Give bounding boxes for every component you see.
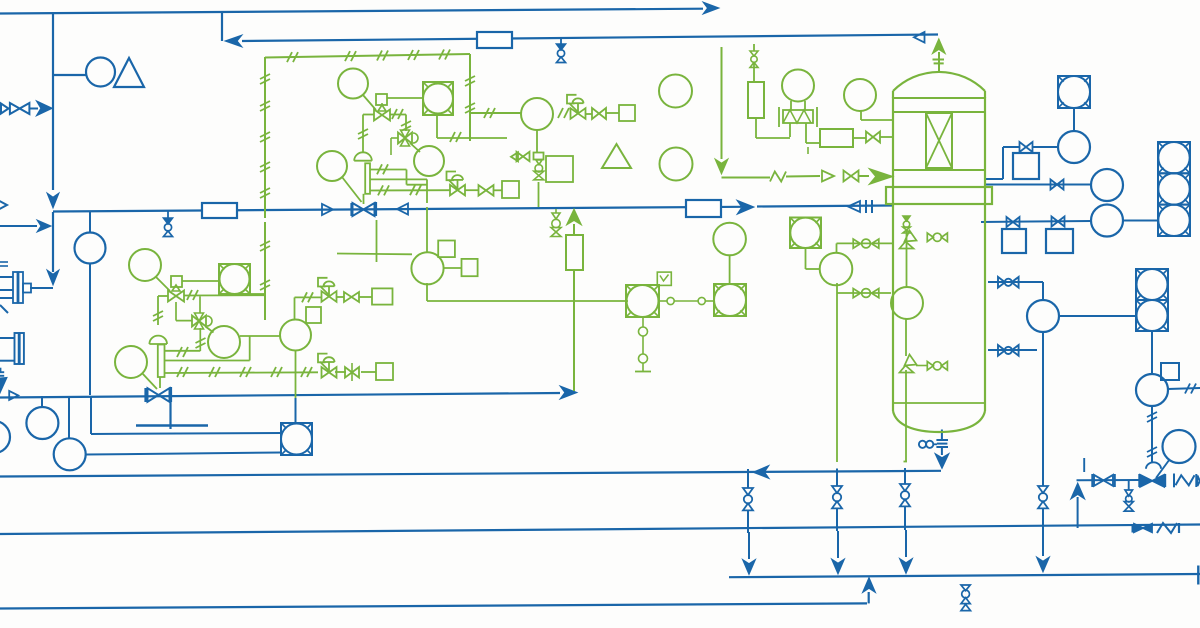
instrument circle PI0 partial (0, 421, 10, 453)
signal link dots (659, 297, 714, 304)
display box green top (423, 82, 453, 115)
hash manifold V1 out (392, 109, 403, 119)
seal pot body (748, 82, 764, 118)
arrow y394 into riser (560, 386, 577, 399)
column drain rupture disc (936, 440, 948, 447)
tick below mixer (807, 147, 809, 154)
wire dp low y352 (165, 350, 201, 352)
valve check y394 (9, 391, 18, 400)
wire capillary to PIC (470, 112, 521, 114)
wire signal y301 (427, 300, 628, 302)
wire PI low diag (142, 373, 157, 389)
wire V2L diag (206, 327, 214, 333)
wire flag to box (387, 97, 423, 99)
display box right top (1058, 76, 1090, 108)
reducer on reflux line near column (914, 32, 925, 43)
pump triangle (114, 58, 144, 87)
column packing (926, 113, 952, 168)
hash capillary top (287, 50, 450, 63)
arrow column vent (932, 39, 945, 54)
wire branch A2 lower (836, 508, 838, 531)
valve branch A1 (743, 488, 753, 510)
wire process line into column (757, 206, 893, 207)
triangle free (602, 144, 631, 168)
square FT flag2 (444, 259, 478, 276)
wire dp out y170 (370, 170, 427, 185)
valve gate process control (352, 202, 377, 216)
hash V1 left (358, 129, 368, 139)
wire seal top stub (753, 44, 755, 51)
wire boxF link (250, 293, 265, 295)
valve tee below PIC (511, 152, 544, 162)
valve vertical on reflux line (557, 37, 566, 63)
wire stack2 down (1151, 331, 1153, 374)
wire stub to PI1 (41, 396, 43, 407)
column liquid level (893, 402, 985, 404)
valve manifold V2L (192, 313, 212, 329)
wire bottom process line y394 (0, 393, 560, 398)
regulator cluster y114 (567, 95, 586, 119)
hash V1L left (153, 311, 163, 321)
pump circle (86, 58, 115, 87)
instrument circle FT (411, 252, 443, 284)
wire V2 diag TI (410, 143, 420, 152)
instrument circle LG (1163, 430, 1196, 463)
wire V2 stub (391, 138, 398, 155)
wire x1043 lower (1042, 508, 1044, 531)
square check flag (657, 272, 671, 285)
column dome (893, 72, 985, 98)
hash V1 V2 (401, 121, 411, 131)
wire capillary right (469, 54, 471, 141)
wire L nozzle (837, 243, 894, 253)
hash dp y189 (378, 185, 421, 195)
wire V2L top stub (199, 296, 201, 313)
wire small inlet y226 (0, 225, 37, 227)
instrument circle dip (891, 287, 923, 319)
instrument rect on reflux line (477, 32, 512, 48)
instrument circle TI low (208, 326, 240, 358)
valve manifold V1 (374, 103, 390, 121)
wire dp low y360 (165, 336, 250, 361)
display box K (790, 218, 821, 249)
arrow process line (737, 200, 754, 214)
regulator cluster y189 (447, 172, 466, 196)
wire TI low link (240, 335, 280, 337)
square y114 (619, 105, 635, 121)
valve set line B right (1133, 523, 1179, 533)
valve check flare (822, 171, 834, 182)
wire riser to rect (573, 224, 575, 235)
column flange (886, 187, 992, 204)
valve below line C (961, 585, 971, 611)
arrow riser up (1071, 483, 1085, 499)
hash LIC signal (1185, 384, 1196, 394)
wire nozzle E y350 (988, 349, 1037, 351)
wire mid2 down (295, 351, 297, 399)
instrument circle PIC (521, 98, 553, 130)
ejector E2 piping (0, 338, 15, 372)
column top nozzle (933, 52, 945, 73)
wire pot to column (880, 136, 893, 138)
square y372 (376, 363, 393, 380)
wire main process line y211 (53, 207, 741, 212)
wire pot down (756, 118, 790, 138)
wire dp out y179 (370, 178, 427, 180)
instrument circle above I (713, 223, 746, 256)
wire valve to sq y114 (606, 112, 619, 114)
end bar line C (1197, 566, 1199, 585)
hash y296 (302, 292, 313, 302)
converter box I (714, 284, 746, 316)
wire LIC signal right (1168, 388, 1200, 389)
wire reg y296 out (336, 296, 344, 298)
valve nozzle B (1051, 180, 1064, 190)
wire header line B (0, 525, 1200, 535)
wire y480 branch (1077, 480, 1140, 490)
arrow green riser tip (567, 209, 582, 225)
wire L down (836, 283, 838, 462)
actuator dome DP top (354, 152, 372, 160)
wire branch to pump symbol (53, 74, 86, 76)
wire flag to box F (182, 280, 219, 282)
arrow B to C x837 (832, 531, 845, 574)
wire V1L right (184, 294, 265, 296)
valve branch A3 (900, 484, 910, 506)
wire mixer right down (806, 123, 820, 143)
wire sensor y296 (295, 297, 322, 319)
wire nozzle A y179 (986, 147, 1020, 179)
valve nozzle E (998, 345, 1019, 356)
arrow on line A (753, 466, 769, 479)
valve nozzle D (998, 277, 1019, 288)
column drain sight glass (919, 441, 937, 448)
valve below y480 (1124, 490, 1133, 511)
converter box H (626, 285, 659, 317)
valve globe below PIC (534, 160, 544, 180)
instrument circle TI mid (414, 146, 444, 176)
instrument circle PSV (782, 70, 814, 102)
hash capillary to PIC (484, 108, 495, 118)
wire dip upper (906, 231, 908, 287)
instrument circle PT top (338, 69, 368, 99)
valve manifold V2 (398, 130, 418, 146)
square y296 (372, 288, 393, 304)
wire ejector suction (30, 287, 53, 289)
column weld y98 (893, 97, 985, 99)
valve y189 (479, 185, 494, 196)
wire I to circle (729, 256, 731, 285)
triangle partial left edge (0, 198, 7, 212)
instrument rect on process line (202, 203, 237, 218)
wire branch A1 lower (747, 510, 749, 533)
valve flare (844, 171, 859, 182)
wire branch A3 lower (904, 506, 906, 530)
square PT flag (376, 94, 387, 105)
wire V2L down stub (199, 328, 201, 351)
arrow small inlet (37, 220, 51, 232)
valve control LV (1139, 462, 1165, 487)
display box F (219, 264, 250, 294)
instrument rect process line right (686, 200, 721, 217)
wire PIC drain (538, 182, 540, 207)
column shell left (892, 97, 894, 411)
wire PI diag (342, 177, 362, 202)
wire M nozzle (837, 292, 892, 294)
instrument circle PT low (129, 249, 161, 281)
wire dp low y372 (165, 371, 319, 374)
wire header line C (729, 574, 1200, 577)
valve manifold V1L (168, 285, 184, 302)
arrow B to C x748 (743, 532, 756, 575)
valve y114 (592, 108, 606, 119)
wire dip valve2 link (916, 365, 927, 367)
valve check process line (322, 204, 333, 215)
square y189 (502, 181, 519, 198)
wire mixer left down (789, 123, 791, 137)
spec break bars before column (866, 200, 872, 213)
hash capillary right (465, 76, 475, 113)
ejector E2 flanges (15, 333, 24, 364)
column bottom dome (893, 411, 985, 432)
wire flare horiz2 (786, 175, 820, 178)
wire LV diag to LG (1156, 460, 1170, 479)
hash LIC down (1147, 412, 1157, 457)
wire column drain drop (941, 430, 943, 456)
valve hanging y211 (551, 209, 561, 237)
wire flare drop (721, 47, 723, 159)
valve check left feed (1, 103, 29, 114)
wire branch A1 (747, 469, 749, 488)
wire dip hook (904, 461, 908, 463)
wire PIC down (536, 130, 538, 152)
column weld y112 (893, 111, 985, 113)
ejector E1 piping (0, 277, 13, 313)
square free mid (546, 156, 573, 182)
wire PSV stems (791, 101, 805, 110)
wire valve to sq y189 (494, 189, 503, 191)
wire header line D (0, 603, 867, 608)
valve drain on process line (164, 211, 173, 237)
wire stub x1085 (1083, 458, 1085, 472)
valve nozzle C2 (1052, 217, 1065, 227)
wire V1 to V2 (390, 115, 406, 132)
valve y372 (345, 363, 359, 381)
hash PIC out (558, 108, 569, 118)
display stack double (1136, 269, 1168, 331)
nsym flare (770, 172, 786, 182)
wire V1L stub down (176, 302, 193, 321)
instrument stem y211 (89, 212, 91, 233)
wire nozzle B y184 (986, 184, 1091, 186)
recorder box with circle (281, 423, 312, 455)
instrument square S2 (1002, 229, 1026, 253)
wire V1L left (158, 296, 168, 325)
wire riser x1078 (1077, 497, 1079, 528)
wire drop from overhead line (221, 12, 223, 42)
wire V1 left (363, 115, 374, 153)
instrument circle PI2 (54, 438, 86, 470)
wire green riser to recorder (295, 398, 297, 423)
instrument circle free1 (659, 75, 692, 108)
valve nozzle A (1020, 142, 1033, 152)
wire reflux return line (242, 35, 938, 42)
valve seal top (750, 51, 758, 67)
wire reg to valve y189 (465, 189, 478, 191)
wire TI to box (1073, 108, 1075, 131)
wire top col (861, 111, 893, 120)
drain tee x376 (337, 220, 412, 262)
wire K down (806, 248, 821, 269)
instrument circle PI top (317, 151, 347, 181)
arrow left header down (47, 193, 59, 208)
instrument circle top col (844, 79, 876, 111)
valve y296 (344, 292, 359, 302)
valve dip top (903, 216, 910, 233)
ejector E1 flanges (13, 272, 31, 303)
wire main overhead line (0, 9, 703, 14)
transmitter body top (364, 163, 371, 204)
wire left header vertical (52, 13, 54, 190)
column weld y170 (893, 169, 985, 171)
hash dp y170 (377, 164, 388, 174)
ejector E1 marks (0, 262, 8, 266)
wire dashed x427 (426, 179, 428, 252)
arrow B to C x1043 (1037, 530, 1050, 572)
instrument square S3 (1046, 229, 1073, 253)
regulator cluster y296 (318, 278, 337, 302)
instrument circle PI low (115, 346, 147, 378)
inline pot h (820, 129, 853, 147)
wire flare to col (859, 175, 869, 177)
ejector E2 marks (0, 372, 4, 376)
wire capillary top (265, 54, 470, 58)
wire riser long (573, 270, 575, 391)
wire to recorder box a (91, 396, 281, 434)
hash V1L out (187, 290, 198, 300)
instrument square S1 (1013, 153, 1039, 179)
valve pot out (866, 132, 880, 143)
instrument circle LI (1027, 300, 1059, 332)
inline body riser (566, 235, 583, 270)
valve branch A2 (832, 486, 842, 508)
valve y480 (1092, 474, 1115, 487)
valve nozzle C1 (1007, 217, 1020, 227)
instrument circle TI right3 (1091, 205, 1123, 237)
instrument square LIC flag (1161, 363, 1179, 380)
wire x1043 long (1042, 332, 1044, 486)
instrument circle L (820, 253, 853, 286)
wire LI to stack2 (1059, 315, 1136, 317)
wire dip lower (905, 319, 907, 356)
instrument circle free2 (660, 148, 693, 181)
wire valve sq y296 (359, 296, 372, 298)
hash dp y352 (177, 347, 188, 357)
actuator dome DP low (149, 336, 167, 344)
wire PT low diag (156, 277, 170, 291)
arrow B to C x905 (900, 530, 913, 574)
wire capillary left (264, 57, 266, 320)
square PT low flag (171, 276, 182, 287)
wire valve sq y372 (361, 371, 376, 373)
arrow into ejector (47, 270, 59, 285)
valve check process line 2 (397, 204, 408, 215)
wire dp out y189 (370, 189, 450, 191)
wire FT down (426, 283, 428, 301)
wire left feed stub (30, 108, 39, 110)
instrument circle TI right1 (1058, 131, 1090, 163)
wire instrument down (89, 264, 91, 396)
wire nozzle C y222 (981, 221, 1091, 222)
wire branch A3 (904, 468, 906, 484)
wire seal to pot (753, 62, 755, 82)
wire pot h out (853, 137, 866, 139)
arrow reflux return into drop (225, 35, 242, 47)
display stack triple (1158, 142, 1190, 236)
regulator cluster y372 (318, 354, 337, 378)
valve x1043 (1038, 486, 1048, 508)
reducer before column (848, 201, 860, 212)
hash capillary left (260, 74, 270, 290)
instrument circle left (75, 233, 106, 264)
wire to recorder box b (86, 453, 281, 455)
wire box bottom manifold (437, 115, 507, 138)
wire nozzle A to TI (1032, 146, 1058, 148)
valve M nozzle (853, 289, 879, 298)
wire nozzle D y282 (988, 282, 1043, 300)
ground chain below H (635, 317, 651, 372)
wire PT diag (363, 95, 376, 110)
column shell right (984, 97, 986, 411)
valve dip angle (900, 231, 917, 249)
arrow overhead line end (703, 2, 719, 14)
rupture mixer box (779, 107, 817, 127)
wire branch A2 (836, 469, 838, 487)
instrument circle LIC (1136, 374, 1168, 406)
hash box bottom (450, 132, 461, 142)
vent tee below valve (136, 402, 208, 429)
valve gate y394 (146, 387, 172, 402)
valve dip side (927, 233, 947, 242)
arrow flare (715, 159, 728, 174)
valve dip side2 (927, 362, 947, 371)
wire flare horiz (722, 177, 771, 179)
arrow D up to C (863, 578, 876, 604)
arrow left feed (36, 101, 52, 116)
valve dip angle2 (900, 355, 917, 373)
wire reg out y114 (585, 113, 592, 115)
hash x201 (196, 338, 206, 348)
instrument circle mid2 (280, 320, 311, 351)
hash dp y372 (177, 367, 312, 377)
wire header to ejector (52, 212, 54, 272)
arrow column drain (935, 454, 949, 469)
wire bottoms line A (0, 471, 941, 477)
transmitter body low (158, 345, 165, 389)
wire reg y372 out (335, 371, 346, 373)
wire TI3 to stack (1123, 220, 1158, 222)
wire LIC down (1151, 406, 1153, 462)
wire LV outlet (1174, 474, 1200, 488)
arrow E2 outlet (0, 378, 7, 394)
arrow flare into column (869, 169, 893, 185)
instrument circle TI right2 (1091, 169, 1123, 201)
square FT flag1 (438, 241, 455, 258)
square mid2 flag (306, 307, 321, 323)
wire stub to PI2 (68, 397, 70, 439)
wire dip tail (905, 370, 907, 462)
instrument circle PI1 (26, 407, 58, 439)
